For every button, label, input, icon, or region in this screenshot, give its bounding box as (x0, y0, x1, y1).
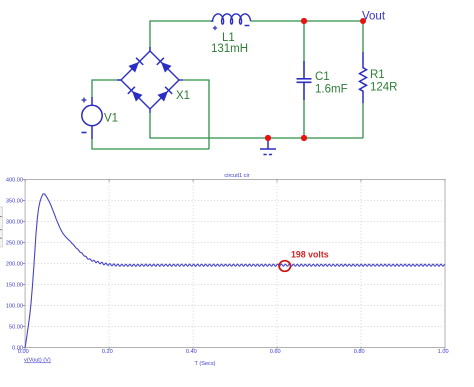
wire R1 bottom to bottom rail (362, 103, 364, 138)
svg-text:0.40: 0.40 (186, 349, 197, 355)
y axis labels (6, 178, 23, 352)
ground (260, 138, 276, 155)
svg-text:v(Vout) (V): v(Vout) (V) (24, 358, 51, 364)
wire top rail from bridge to L1 (150, 21, 212, 51)
svg-text:300.00: 300.00 (6, 220, 23, 226)
svg-text:124R: 124R (370, 82, 398, 94)
svg-text:circuit1 cir: circuit1 cir (224, 173, 249, 179)
wire right corner of bridge down to return rail (183, 80, 209, 149)
inductor L1 (211, 14, 250, 30)
svg-text:400.00: 400.00 (6, 178, 23, 184)
node ground junction dot (265, 135, 271, 141)
voltage source V1 (82, 97, 103, 139)
svg-text:100.00: 100.00 (6, 304, 23, 310)
axis ticks (23, 180, 445, 350)
svg-text:1.6mF: 1.6mF (315, 84, 348, 96)
wire bridge bottom corner to ground rail (150, 113, 363, 138)
svg-text:198 volts: 198 volts (291, 250, 329, 260)
svg-text:0.00: 0.00 (18, 349, 29, 355)
wire C1 top lead (303, 21, 305, 61)
svg-text:V1: V1 (104, 113, 118, 125)
wire V1 bottom to lower return rail (92, 139, 209, 149)
svg-text:Vout: Vout (362, 11, 386, 23)
svg-text:350.00: 350.00 (6, 199, 23, 205)
simulation trace v(Vout) (25, 194, 445, 348)
svg-text:50.00: 50.00 (9, 325, 23, 331)
diode top-right of X1 (157, 58, 172, 73)
svg-text:250.00: 250.00 (6, 241, 23, 247)
svg-text:C1: C1 (315, 71, 330, 83)
left edge UI sliver (0, 207, 3, 247)
svg-text:131mH: 131mH (211, 43, 248, 55)
node junction dot (L1/C1) (301, 18, 307, 24)
wire Vout node down to R1 (362, 21, 364, 52)
node Vout dot (360, 18, 366, 24)
vertical gridlines (109, 180, 361, 348)
svg-text:0.80: 0.80 (354, 349, 365, 355)
horizontal gridlines (25, 201, 445, 327)
wire L1 to C1 top junction (251, 20, 304, 22)
svg-text:R1: R1 (370, 69, 385, 81)
wire C1 bottom lead (303, 100, 305, 138)
bridge rectifier X1 outline (117, 47, 183, 113)
wire bridge left corner to V1 top (92, 80, 121, 97)
svg-text:T (Secs): T (Secs) (194, 361, 215, 367)
annotation red circle marker (279, 261, 290, 272)
diode bottom-left of X1 (128, 87, 143, 102)
svg-text:150.00: 150.00 (6, 283, 23, 289)
wire C1 junction to Vout node (304, 20, 363, 22)
diode top-left of X1 (129, 58, 144, 73)
svg-text:0.20: 0.20 (102, 349, 113, 355)
plot frame (25, 180, 445, 348)
x axis labels (18, 349, 449, 355)
node C1 bottom junction dot (301, 135, 307, 141)
svg-text:0.60: 0.60 (270, 349, 281, 355)
capacitor C1 (297, 61, 312, 100)
svg-text:X1: X1 (176, 90, 190, 102)
svg-text:1.00: 1.00 (438, 349, 449, 355)
svg-text:200.00: 200.00 (6, 262, 23, 268)
diode bottom-right of X1 (158, 87, 173, 102)
resistor R1 (360, 52, 367, 103)
